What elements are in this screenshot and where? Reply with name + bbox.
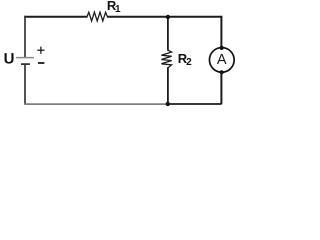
ammeter A circle (209, 48, 234, 73)
ammeter bottom terminal dot (220, 70, 224, 74)
svg-text:2: 2 (186, 57, 192, 68)
node junction top (166, 15, 170, 19)
ammeter top terminal dot (220, 46, 224, 50)
wire middle branch upper (167, 17, 169, 51)
resistor R2 (161, 50, 171, 68)
svg-text:1: 1 (115, 4, 121, 15)
wire right vertical upper (220, 16, 222, 48)
svg-text:U: U (4, 50, 15, 67)
wire left vertical upper (24, 16, 26, 58)
minus sign (38, 62, 45, 64)
wire R1 to top-right corner (107, 16, 222, 18)
wire left vertical lower (24, 64, 26, 104)
wire right vertical lower (220, 72, 222, 104)
wire bottom right (black) (167, 103, 222, 105)
plus sign (37, 47, 44, 54)
node junction bottom (166, 102, 170, 106)
battery U short plate (21, 63, 30, 65)
wire top-left to R1 (24, 16, 87, 18)
wire middle branch lower (167, 67, 169, 104)
wire bottom left (gray) (24, 103, 167, 105)
svg-text:A: A (217, 52, 227, 68)
resistor R1 (87, 12, 108, 21)
battery U long plate (16, 57, 34, 59)
